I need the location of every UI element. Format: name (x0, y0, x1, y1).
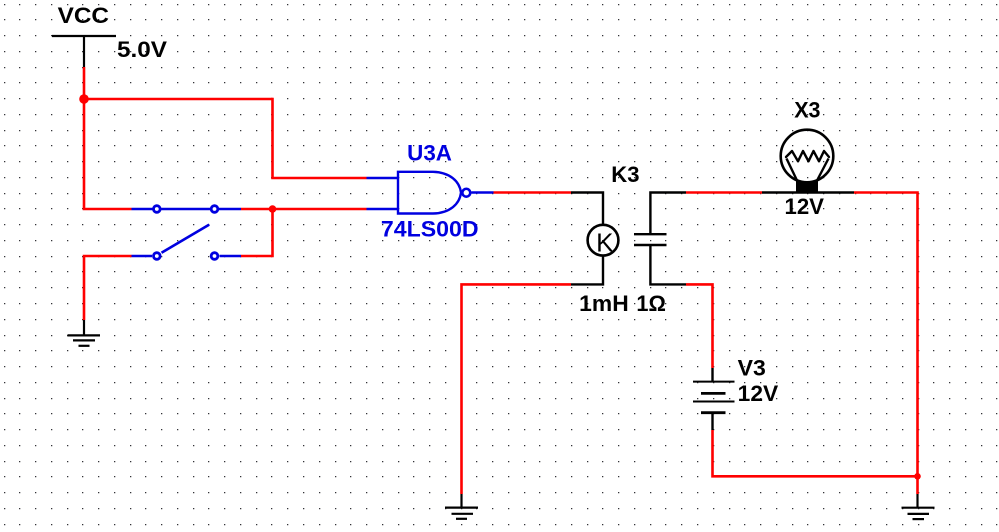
svg-text:12V: 12V (785, 194, 825, 219)
wire contact top to lamp X3 (686, 191, 762, 194)
relay K3 contact (634, 193, 686, 285)
wire contact bottom to battery V3 (686, 284, 713, 368)
wire top corner down to gate input row (273, 98, 367, 178)
lamp X3 (762, 130, 854, 193)
wire VCC stem to node A (83, 67, 86, 99)
wire node B down to switch S2 (241, 209, 273, 256)
wire coil bottom to ground GND2 (462, 284, 572, 494)
svg-text:K3: K3 (611, 162, 639, 187)
wire gate output to relay coil (494, 191, 572, 194)
svg-text:5.0V: 5.0V (117, 37, 167, 62)
ground GND3 (902, 494, 935, 519)
wire lamp to right riser (854, 193, 918, 477)
wire node A to top corner (83, 98, 273, 101)
svg-text:VCC: VCC (58, 3, 110, 28)
power VCC symbol (52, 36, 116, 67)
svg-text:U3A: U3A (407, 140, 452, 165)
ground GND2 (445, 494, 478, 519)
wire switch S1 to node B and gate input 2 (241, 208, 367, 211)
switch S1 closed (132, 208, 242, 211)
relay K3 coil (571, 193, 618, 285)
wire battery bottom to junction C (713, 430, 918, 476)
junction node B (269, 205, 277, 213)
svg-text:74LS00D: 74LS00D (381, 217, 479, 242)
ground GND1 (68, 320, 101, 346)
switch S2 open (132, 225, 242, 256)
NAND gate U3A body (367, 172, 494, 214)
svg-text:K: K (596, 228, 614, 258)
wire ground riser to switch S2 pole (84, 256, 132, 320)
svg-text:12V: 12V (738, 381, 779, 406)
gate bubble (462, 189, 470, 197)
wire left to switch S1 pole (83, 208, 132, 211)
battery V3 (693, 368, 735, 430)
svg-text:1mH: 1mH (579, 291, 629, 316)
wire junction C to ground GND3 (916, 476, 919, 494)
wire node A down to switch S1 (83, 99, 86, 209)
junction node A (79, 94, 89, 104)
junction node C (914, 473, 921, 480)
svg-text:X3: X3 (794, 97, 820, 122)
lamp base (796, 181, 818, 192)
svg-text:V3: V3 (738, 355, 766, 380)
svg-text:1Ω: 1Ω (636, 291, 666, 316)
